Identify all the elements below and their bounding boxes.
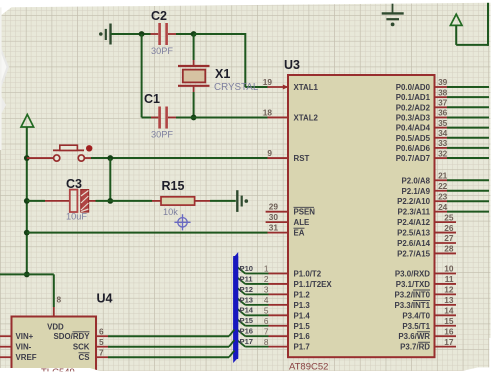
pin 19 XTAL1 — [263, 77, 319, 92]
svg-text:P2.4/A12: P2.4/A12 — [397, 218, 431, 227]
svg-text:SCK: SCK — [73, 343, 90, 352]
svg-text:XTAL1: XTAL1 — [294, 83, 319, 92]
wire drop to C3 row — [109, 158, 111, 201]
svg-text:8: 8 — [57, 295, 62, 305]
pin 12 P3.2/INT0 — [394, 285, 456, 300]
chip U4 value label (cut off) — [28, 367, 118, 374]
pin 30 ALE — [266, 212, 310, 227]
svg-text:26: 26 — [444, 223, 454, 233]
svg-text:7: 7 — [99, 347, 104, 357]
pin 23 P2.2/A10 — [397, 191, 489, 206]
pin 25 P2.4/A12 — [397, 212, 456, 227]
capacitor C1 — [142, 92, 176, 140]
junction C3 row (110.3,200.9) — [107, 198, 113, 204]
svg-text:19: 19 — [263, 77, 273, 87]
pin 28 P2.7/A15 — [397, 244, 456, 259]
svg-text:P2.0/A8: P2.0/A8 — [401, 176, 430, 185]
svg-text:P3.3/INT1: P3.3/INT1 — [394, 301, 430, 310]
svg-text:12: 12 — [444, 285, 454, 295]
svg-text:P0.0/AD0: P0.0/AD0 — [396, 83, 431, 92]
page edge: right white strip — [489, 0, 504, 374]
svg-text:C3: C3 — [66, 177, 82, 191]
svg-text:P1.3: P1.3 — [294, 301, 311, 310]
pin 31 EA — [268, 222, 305, 237]
wire C3 to R15 — [96, 200, 153, 202]
svg-text:P11: P11 — [240, 274, 254, 283]
svg-text:XTAL2: XTAL2 — [294, 113, 319, 122]
pin 14 P3.4/T0 — [402, 306, 456, 321]
crystal X1 — [178, 34, 259, 117]
pin 35 P0.4/AD4 — [396, 118, 489, 133]
pin 34 P0.5/AD5 — [396, 128, 489, 143]
svg-text:P3.5/T1: P3.5/T1 — [402, 322, 430, 331]
svg-text:P0.3/AD3: P0.3/AD3 — [396, 113, 431, 122]
svg-text:P0.1/AD1: P0.1/AD1 — [396, 93, 431, 102]
svg-text:U3: U3 — [284, 58, 300, 72]
wire C1 to XTAL2 — [176, 116, 268, 118]
node A junction (141.6,34) — [139, 31, 145, 37]
svg-text:14: 14 — [444, 306, 454, 316]
pin 18 XTAL2 — [263, 107, 319, 122]
svg-text:P15: P15 — [240, 316, 254, 325]
wire node A down to C1 row — [141, 34, 143, 117]
capacitor C2 — [151, 9, 177, 56]
pin 22 P2.1/A9 — [401, 181, 489, 196]
resistor R15 (10k) — [152, 179, 210, 217]
svg-text:37: 37 — [438, 98, 448, 108]
svg-text:C2: C2 — [151, 9, 167, 23]
svg-text:5: 5 — [264, 306, 269, 316]
svg-text:P3.1/TXD: P3.1/TXD — [396, 280, 431, 289]
svg-text:23: 23 — [438, 191, 448, 201]
svg-text:21: 21 — [438, 171, 448, 181]
svg-text:30PF: 30PF — [151, 130, 173, 140]
wire rail to U4 VDD — [27, 274, 54, 307]
page edge: top white strip — [0, 0, 504, 16]
svg-text:P3.0/RXD: P3.0/RXD — [395, 270, 430, 279]
page edge: bottom white strip — [0, 367, 504, 374]
svg-text:AT89C52: AT89C52 — [289, 362, 328, 373]
svg-text:22: 22 — [438, 181, 448, 191]
svg-text:36: 36 — [438, 108, 448, 118]
svg-text:16: 16 — [444, 326, 454, 336]
svg-text:32: 32 — [438, 148, 448, 158]
svg-text:SDO/RDY: SDO/RDY — [54, 332, 91, 341]
ground GND1 (left of C2, rotated left) — [99, 24, 111, 45]
push button SW (reset) — [27, 145, 93, 161]
capacitor C3 (polarized 10uF) — [27, 177, 96, 222]
wire C2 right to node B — [176, 33, 194, 35]
pin 7 P1.6 with net label P16 — [237, 326, 310, 341]
junction rail/C3 row — [24, 198, 30, 204]
svg-text:P0.5/AD5: P0.5/AD5 — [396, 134, 431, 143]
pin 9 RST — [267, 148, 309, 163]
svg-text:P2.5/A13: P2.5/A13 — [397, 229, 431, 238]
chip U4 body — [12, 292, 113, 374]
svg-text:27: 27 — [444, 233, 454, 243]
svg-text:P1.1/T2EX: P1.1/T2EX — [294, 280, 333, 289]
svg-text:P16: P16 — [240, 327, 254, 336]
svg-text:1: 1 — [264, 264, 269, 274]
pin 21 P2.0/A8 — [401, 171, 489, 186]
pin 37 P0.2/AD2 — [396, 98, 489, 113]
svg-text:P1.0/T2: P1.0/T2 — [294, 270, 322, 279]
wire arrow to top edge — [456, 2, 488, 46]
svg-text:P1.5: P1.5 — [294, 322, 311, 331]
svg-text:P3.7/RD: P3.7/RD — [400, 343, 430, 352]
svg-text:P0.6/AD6: P0.6/AD6 — [396, 144, 431, 153]
svg-text:10uF: 10uF — [66, 212, 87, 222]
pin 4 P1.3 with net label P13 — [237, 295, 310, 310]
pin VREF — [0, 353, 37, 362]
svg-text:P2.2/A10: P2.2/A10 — [397, 197, 431, 206]
svg-text:C1: C1 — [144, 92, 160, 106]
svg-text:31: 31 — [269, 222, 279, 232]
svg-text:34: 34 — [438, 128, 448, 138]
junction rail/EA row — [24, 230, 30, 236]
svg-text:8: 8 — [264, 337, 269, 347]
svg-text:P1.2: P1.2 — [294, 290, 311, 299]
svg-text:X1: X1 — [215, 67, 230, 81]
svg-text:CRYSTAL: CRYSTAL — [214, 82, 259, 93]
svg-text:VIN+: VIN+ — [16, 332, 34, 341]
svg-text:33: 33 — [438, 138, 448, 148]
svg-text:P3.6/WR: P3.6/WR — [398, 332, 430, 341]
power arrow VCC (left rail) — [21, 115, 34, 128]
svg-text:U4: U4 — [97, 292, 113, 306]
svg-text:P2.6/A14: P2.6/A14 — [397, 239, 431, 248]
svg-text:VDD: VDD — [47, 323, 64, 332]
svg-text:15: 15 — [444, 316, 454, 326]
svg-text:39: 39 — [438, 77, 448, 87]
pin 1 P1.0/T2 with net label P10 — [237, 264, 322, 279]
pin 15 P3.5/T1 — [402, 316, 456, 331]
svg-text:P14: P14 — [240, 306, 254, 315]
svg-text:P0.2/AD2: P0.2/AD2 — [396, 103, 431, 112]
svg-text:P2.3/A11: P2.3/A11 — [398, 208, 431, 217]
svg-text:10: 10 — [444, 264, 454, 274]
ground GND3 (top center) — [382, 3, 404, 26]
svg-text:38: 38 — [438, 87, 448, 97]
pin 8 P1.7 with net label P17 — [237, 337, 310, 352]
wire button to RST pin — [91, 157, 268, 159]
pin 3 P1.2 with net label P12 — [237, 285, 310, 300]
wire node B to XTAL1 (up-over-down) — [194, 33, 268, 87]
svg-text:17: 17 — [444, 337, 454, 347]
svg-text:EA: EA — [294, 229, 305, 238]
svg-text:29: 29 — [269, 202, 279, 212]
pin 17 P3.7/RD — [400, 337, 456, 352]
svg-text:P1.7: P1.7 — [294, 343, 311, 352]
pin 24 P2.3/A11 — [398, 202, 489, 217]
svg-text:6: 6 — [99, 326, 104, 336]
svg-text:P2.7/A15: P2.7/A15 — [397, 249, 431, 258]
svg-text:3: 3 — [264, 285, 269, 295]
pin 27 P2.6/A14 — [397, 233, 456, 248]
page edge: left ragged white — [0, 7, 9, 150]
pin 39 P0.0/AD0 — [396, 77, 489, 92]
svg-text:6: 6 — [264, 316, 269, 326]
pin 11 P3.1/TXD — [396, 274, 456, 289]
pin 33 P0.6/AD6 — [396, 138, 489, 153]
svg-text:5: 5 — [99, 337, 104, 347]
svg-text:P1.6: P1.6 — [294, 332, 311, 341]
pin 29 PSEN — [266, 202, 316, 217]
wire exit left edge — [0, 273, 27, 275]
wire gnd to node A — [111, 33, 151, 35]
svg-text:P10: P10 — [240, 264, 254, 273]
wire EA row (rail to EA pin) — [27, 232, 268, 234]
svg-text:VREF: VREF — [16, 353, 37, 362]
pin 26 P2.5/A13 — [397, 223, 456, 238]
svg-text:VIN-: VIN- — [16, 343, 32, 352]
pin VIN+ — [0, 332, 34, 341]
pin 8 VDD — [47, 295, 64, 332]
op chip U3 AT89C52 body — [284, 58, 435, 373]
wire left rail — [26, 127, 28, 274]
svg-text:CS: CS — [79, 353, 90, 362]
pin 36 P0.3/AD3 — [396, 108, 489, 123]
pin 7 CS — [79, 347, 235, 362]
svg-text:7: 7 — [264, 326, 269, 336]
svg-text:28: 28 — [444, 244, 454, 254]
svg-text:P0.4/AD4: P0.4/AD4 — [396, 124, 431, 133]
svg-text:P2.1/A9: P2.1/A9 — [401, 187, 430, 196]
svg-text:10k: 10k — [163, 207, 178, 217]
ground GND2 (right of R15, rotated right) — [237, 190, 248, 212]
svg-text:4: 4 — [264, 295, 269, 305]
power arrow VCC (top right) — [450, 14, 462, 25]
svg-text:P1.4: P1.4 — [294, 311, 311, 320]
junction rail/left-exit row — [24, 272, 30, 278]
svg-text:RST: RST — [294, 154, 310, 163]
node C junction (193.6,117.45) — [191, 115, 197, 121]
svg-text:30: 30 — [269, 212, 279, 222]
svg-text:R15: R15 — [162, 179, 185, 193]
origin marker (blue crosshair) — [174, 214, 190, 230]
svg-text:P3.4/T0: P3.4/T0 — [402, 311, 430, 320]
junction rail/button row — [24, 155, 30, 161]
pin 6 SDO/RDY — [54, 326, 235, 341]
bus (blue vertical) — [233, 252, 238, 363]
svg-text:P12: P12 — [240, 285, 254, 294]
svg-text:P0.7/AD7: P0.7/AD7 — [396, 154, 431, 163]
pin 5 SCK — [73, 337, 235, 352]
svg-text:11: 11 — [445, 274, 454, 284]
node B junction (193.6,34) — [191, 31, 197, 37]
svg-text:9: 9 — [267, 148, 272, 158]
pin VIN- — [0, 343, 32, 352]
svg-text:P17: P17 — [240, 337, 254, 346]
pin 16 P3.6/WR — [398, 326, 456, 341]
svg-text:25: 25 — [444, 212, 454, 222]
pin 2 P1.1/T2EX with net label P11 — [237, 274, 332, 289]
junction button/C3 drop (110.3,158) — [107, 155, 113, 161]
svg-text:ALE: ALE — [294, 218, 310, 227]
svg-text:PSEN: PSEN — [294, 208, 316, 217]
pin 5 P1.4 with net label P14 — [237, 306, 310, 321]
svg-text:13: 13 — [444, 295, 454, 305]
pin 32 P0.7/AD7 — [396, 148, 489, 163]
pin 38 P0.1/AD1 — [396, 87, 489, 102]
svg-text:P3.2/INT0: P3.2/INT0 — [394, 290, 430, 299]
svg-text:2: 2 — [264, 274, 269, 284]
pin 10 P3.0/RXD — [395, 264, 456, 279]
svg-text:35: 35 — [438, 118, 448, 128]
svg-text:P13: P13 — [240, 295, 254, 304]
pin 6 P1.5 with net label P15 — [237, 316, 310, 331]
pin 13 P3.3/INT1 — [394, 295, 456, 310]
svg-text:30PF: 30PF — [151, 46, 173, 56]
wire R15 to ground — [210, 200, 236, 202]
svg-text:24: 24 — [438, 202, 448, 212]
svg-text:18: 18 — [263, 107, 273, 117]
